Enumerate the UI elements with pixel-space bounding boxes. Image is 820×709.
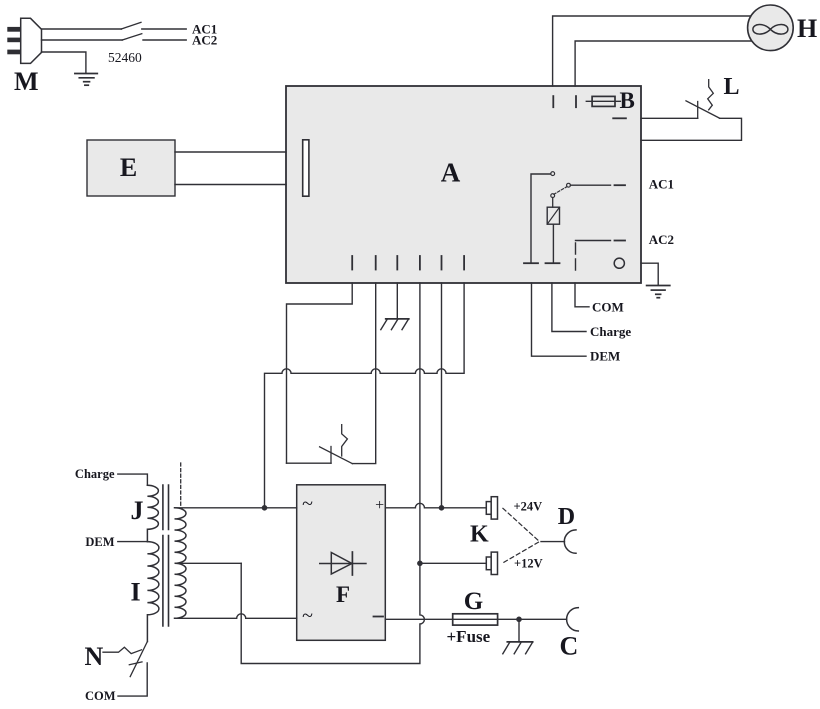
svg-text:C: C <box>560 631 579 660</box>
connector K top <box>486 497 497 519</box>
connector K bottom <box>486 552 497 574</box>
wire AC1 right <box>142 28 186 30</box>
junction dot +24V <box>439 505 445 511</box>
svg-text:D: D <box>558 504 575 530</box>
svg-text:DEM: DEM <box>85 535 114 549</box>
svg-text:B: B <box>620 88 635 113</box>
wire pin4 long vertical with detour to center tap <box>241 283 424 664</box>
wire DEM left <box>118 541 148 543</box>
transformer core <box>163 485 169 626</box>
plug M <box>7 18 41 63</box>
fuse B <box>586 96 620 106</box>
dashed line above secondary <box>180 463 182 507</box>
svg-text:AC2: AC2 <box>192 32 217 47</box>
earth ground (right of A) <box>647 286 670 298</box>
wire COM <box>575 283 589 307</box>
switch L <box>641 80 742 141</box>
svg-text:52460: 52460 <box>108 50 142 65</box>
svg-text:N: N <box>85 642 104 671</box>
switch actuator (loop) <box>342 425 348 456</box>
diode in F <box>320 552 366 575</box>
wire secondary top to F <box>176 507 297 509</box>
svg-text:M: M <box>14 67 39 96</box>
switch contact tick (loop) <box>330 447 332 464</box>
wire F minus output through fuse to C <box>385 618 566 620</box>
wire earth from plug <box>42 52 86 73</box>
earth ground (plug) <box>75 74 97 86</box>
wire Charge <box>552 283 586 332</box>
switch N <box>103 642 147 677</box>
socket D <box>564 530 576 553</box>
wire AC2 <box>42 39 123 41</box>
svg-text:G: G <box>464 588 483 615</box>
wire DEM <box>532 283 587 356</box>
svg-text:~: ~ <box>302 605 313 627</box>
wire +12V <box>420 562 486 564</box>
svg-text:J: J <box>131 496 144 525</box>
wire Charge left <box>118 474 148 485</box>
lamp H <box>748 5 794 51</box>
relay U1 in A <box>524 172 570 264</box>
transformer primary winding I <box>147 542 159 642</box>
socket C <box>567 608 579 631</box>
terminal circle in A <box>614 258 624 268</box>
dash below B <box>613 117 626 119</box>
wire A to lamp 2 <box>575 41 752 86</box>
svg-text:+12V: +12V <box>514 556 543 570</box>
node AC2 row <box>576 240 611 242</box>
svg-text:AC1: AC1 <box>649 177 674 192</box>
junction dot fuse-C <box>516 617 522 623</box>
svg-text:DEM: DEM <box>590 349 620 364</box>
svg-text:H: H <box>797 14 817 43</box>
svg-text:AC2: AC2 <box>649 232 674 247</box>
svg-text:Charge: Charge <box>590 324 631 339</box>
svg-text:L: L <box>724 74 740 100</box>
svg-text:E: E <box>120 153 137 182</box>
node AC1 row <box>570 184 610 186</box>
minus mark in F <box>374 616 384 618</box>
wire loop bottom right <box>352 283 375 464</box>
svg-text:~: ~ <box>302 493 313 515</box>
chassis ground (fuse) <box>503 619 533 654</box>
fuse G <box>453 614 498 625</box>
pin ticks bottom of A <box>352 256 464 270</box>
svg-text:COM: COM <box>592 299 624 314</box>
svg-text:K: K <box>470 521 489 547</box>
pin tick top 1 <box>552 96 554 107</box>
wire F plus output <box>385 503 486 508</box>
wire E to A top <box>175 151 286 153</box>
switch blade AC2 <box>122 34 142 40</box>
svg-text:+24V: +24V <box>514 500 543 514</box>
box E <box>87 140 175 196</box>
svg-text:I: I <box>131 578 141 607</box>
wire to socket D <box>541 541 565 543</box>
wire secondary bottom to F <box>177 614 297 619</box>
junction dot +12V <box>417 561 423 567</box>
transformer secondary winding <box>175 508 187 619</box>
wire pin1 to loop <box>287 283 353 463</box>
svg-text:F: F <box>336 582 350 607</box>
wire COM left <box>118 663 147 696</box>
box A <box>286 86 641 283</box>
chassis ground (pin3) <box>381 319 409 330</box>
svg-text:Charge: Charge <box>75 467 115 481</box>
svg-text:A: A <box>441 158 461 188</box>
wire AC2 right <box>143 39 186 41</box>
wire loop bottom left <box>287 462 332 464</box>
dashed leads to D <box>503 508 540 562</box>
switch blade (loop) <box>320 447 353 464</box>
junction dot bus-secondary top <box>262 505 268 511</box>
wire E to A bottom <box>175 184 286 186</box>
svg-text:+Fuse: +Fuse <box>447 627 491 646</box>
svg-text:COM: COM <box>85 689 116 703</box>
switch blade AC1 <box>121 22 141 29</box>
wire A to lamp 1 <box>553 16 752 86</box>
bridge rectifier F <box>297 485 386 641</box>
svg-text:+: + <box>375 497 384 514</box>
pin tick top 2 <box>575 96 577 107</box>
wire AC1 <box>42 28 122 30</box>
wire A to right ground <box>641 263 658 285</box>
wire secondary tap <box>177 562 241 564</box>
wire pin6 bus to bridge input <box>265 283 465 508</box>
transformer primary winding J <box>147 485 158 541</box>
wire pin5 <box>441 283 443 508</box>
wire pin3 to chassis ground <box>396 283 398 319</box>
connector slot in A <box>303 140 309 196</box>
